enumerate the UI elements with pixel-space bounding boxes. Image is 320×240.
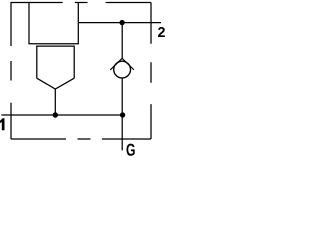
enclosure border top (dashed) bbox=[11, 2, 152, 4]
junction node: pilot / check valve bbox=[119, 20, 124, 25]
check valve V1 seat (caret) bbox=[110, 58, 134, 70]
enclosure border left (dashed) bbox=[10, 3, 12, 140]
valve seat (rectangle with funnel bottom) bbox=[37, 46, 74, 89]
wire: seat tip to port 1 line bbox=[54, 89, 56, 115]
port label G bbox=[126, 144, 134, 156]
junction node: check valve / port 1 / G bbox=[120, 112, 125, 117]
enclosure border right (dashed) bbox=[150, 3, 152, 140]
wire: check valve to port 1 line bbox=[121, 78, 123, 115]
port G wire (through bottom border) bbox=[121, 115, 123, 150]
wire: pilot junction down to check valve bbox=[121, 23, 123, 59]
check valve V1 ball (circle) bbox=[114, 61, 131, 78]
enclosure border bottom (dashed) bbox=[11, 138, 151, 140]
valve body (rectangle, open top) bbox=[29, 3, 78, 44]
junction node: seat wire / port 1 bbox=[53, 112, 58, 117]
pilot wire to port 2 bbox=[78, 22, 161, 24]
port label 1 bbox=[0, 118, 5, 130]
port 1 wire bbox=[1, 114, 122, 116]
port label 2 bbox=[158, 27, 165, 37]
